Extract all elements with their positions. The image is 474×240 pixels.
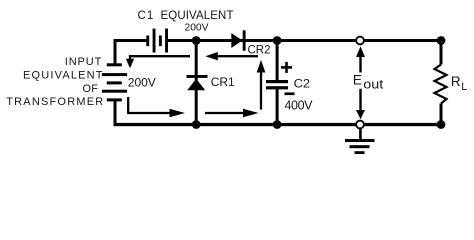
minus sign C2: [285, 92, 295, 95]
diode CR1: [187, 75, 208, 90]
svg-text:400V: 400V: [285, 99, 314, 113]
battery 200V input source: [102, 63, 127, 101]
terminal Eout top: [356, 37, 364, 45]
svg-text:C2: C2: [294, 76, 311, 90]
wire CR1 branch: [195, 40, 198, 124]
svg-text:INPUT: INPUT: [65, 56, 102, 68]
wire C2 branch lower: [276, 89, 279, 124]
wire RL branch lower: [440, 104, 443, 125]
node junction dot bottom C2: [273, 120, 282, 129]
svg-text:E: E: [353, 71, 362, 87]
svg-text:200V: 200V: [185, 22, 209, 34]
node junction dot top CR1: [192, 36, 201, 45]
current arrow A2 (bottom-left mesh, down then right): [128, 97, 185, 117]
current arrow A3 (under top rail, pointing left): [205, 52, 258, 60]
terminal Eout bottom: [356, 121, 364, 129]
node junction dot bottom RL: [437, 120, 446, 129]
diode CR2: [231, 30, 245, 50]
node junction dot bottom CR1: [192, 120, 201, 129]
current arrow A4 (pointing up beside C2): [257, 60, 266, 110]
label INPUT EQUIVALENT OF TRANSFORMER: [6, 56, 103, 108]
svg-text:CR1: CR1: [211, 75, 235, 89]
capacitor C2: [266, 80, 288, 89]
resistor RL: [435, 65, 447, 104]
arrow Eout up: [356, 46, 365, 72]
svg-text:C1: C1: [138, 10, 154, 22]
svg-text:TRANSFORMER: TRANSFORMER: [6, 96, 103, 108]
ground: [345, 129, 375, 154]
current arrow A5 (bottom middle mesh, pointing right): [205, 109, 259, 118]
svg-text:out: out: [363, 78, 384, 92]
wire top rail left segment: [114, 39, 149, 42]
svg-text:200V: 200V: [128, 75, 156, 89]
svg-text:R: R: [451, 74, 461, 89]
svg-text:L: L: [461, 81, 467, 93]
wire bottom rail: [114, 123, 443, 126]
svg-text:EQUIVALENT: EQUIVALENT: [23, 69, 103, 81]
svg-text:OF: OF: [83, 83, 99, 95]
wire RL branch upper: [440, 40, 443, 65]
wire C2 branch upper: [276, 40, 279, 81]
arrow Eout down: [356, 89, 365, 120]
wire top rail right segment: [167, 39, 443, 42]
svg-text:CR2: CR2: [248, 43, 271, 57]
node junction dot top RL: [437, 36, 446, 45]
wire left rail upper segment: [114, 39, 117, 65]
battery C1 equivalent: [146, 29, 168, 53]
current arrow A1 (top-left mesh, left then down): [126, 56, 190, 68]
svg-text:EQUIVALENT: EQUIVALENT: [161, 10, 234, 22]
wire left rail lower segment: [114, 100, 117, 126]
plus sign C2: [281, 62, 292, 73]
node junction dot top C2: [273, 36, 282, 45]
